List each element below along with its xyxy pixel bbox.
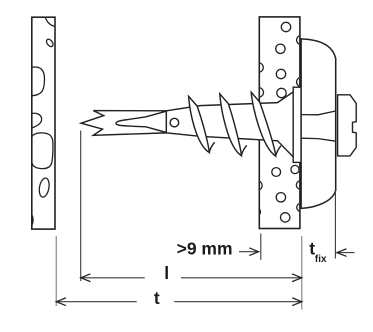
svg-text:>9 mm: >9 mm (177, 239, 233, 259)
svg-text:l: l (164, 263, 169, 283)
svg-text:t: t (154, 288, 160, 308)
svg-text:fix: fix (315, 254, 327, 265)
